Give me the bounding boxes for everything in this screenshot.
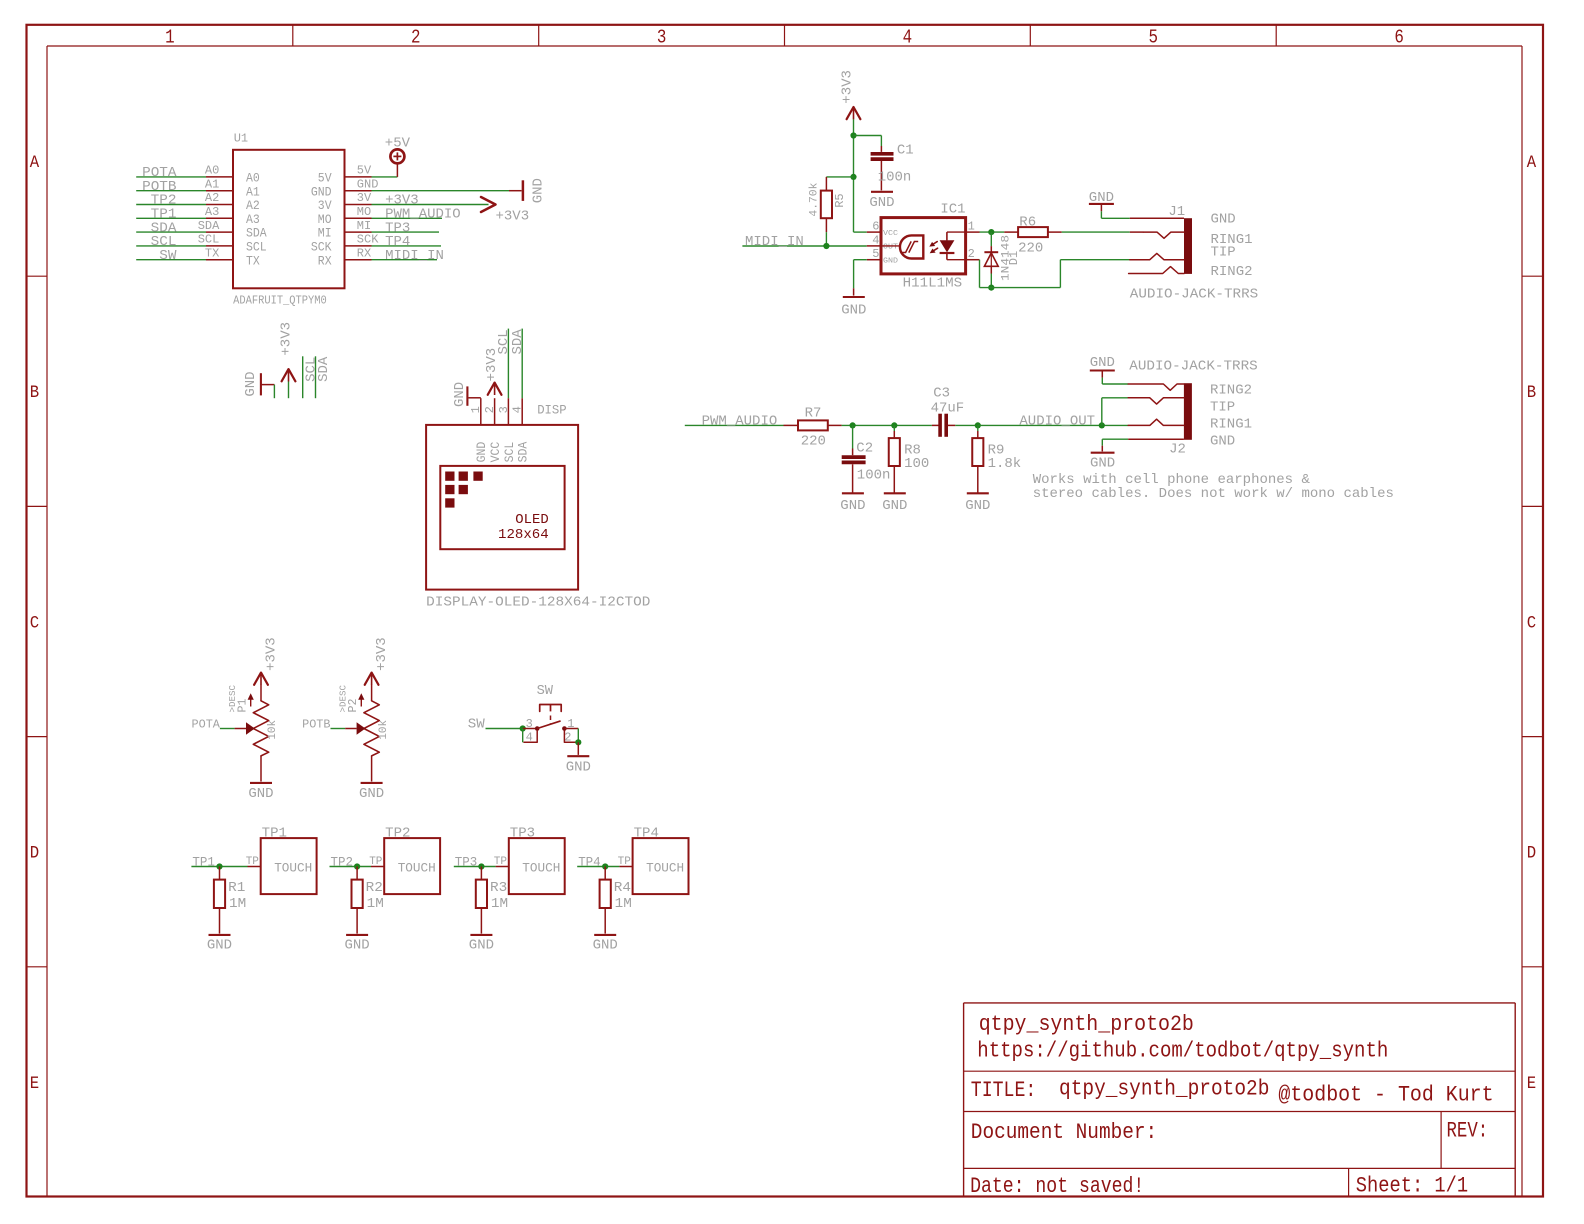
svg-text:RING2: RING2	[1210, 382, 1252, 398]
DISP pin 2 VCC	[494, 398, 496, 425]
wire J2 GND to ground	[1101, 439, 1103, 446]
svg-text:1: 1	[469, 406, 483, 413]
svg-text:GND: GND	[357, 177, 379, 191]
svg-text:GND: GND	[248, 786, 273, 802]
svg-text:5: 5	[872, 247, 879, 261]
svg-text:qtpy_synth_proto2b: qtpy_synth_proto2b	[979, 1012, 1194, 1037]
U1 pin A0	[206, 176, 233, 178]
svg-text:5: 5	[1149, 27, 1159, 49]
ground GND below R8	[884, 492, 906, 494]
svg-text:GND: GND	[311, 185, 332, 199]
resistor R8	[893, 425, 895, 431]
TP4 pin TP	[619, 866, 632, 868]
junction	[575, 739, 581, 745]
svg-text:TIP: TIP	[1210, 400, 1235, 416]
svg-text:3: 3	[657, 27, 667, 49]
svg-text:SCL: SCL	[198, 233, 220, 247]
svg-text:R3: R3	[490, 880, 507, 896]
U1 pin RX	[345, 259, 372, 261]
svg-text:MO: MO	[357, 205, 371, 219]
svg-text:TX: TX	[246, 254, 260, 268]
svg-text:1M: 1M	[229, 896, 246, 912]
DISP pin 3 SCL	[507, 398, 509, 425]
svg-text:B: B	[1527, 383, 1536, 403]
junction	[216, 863, 222, 869]
svg-text:E: E	[1527, 1074, 1536, 1094]
svg-text:2: 2	[968, 247, 975, 261]
wire net POTA	[136, 176, 206, 178]
IC1 schmitt trigger shape	[900, 235, 923, 258]
wire R6 to J1 RING1	[1062, 231, 1130, 233]
supply +3V3 arrow	[481, 197, 496, 212]
wire GND to J2 RING2	[1101, 378, 1103, 384]
svg-text:SW: SW	[159, 248, 177, 264]
wire net TP4	[577, 866, 619, 868]
SW lever	[537, 721, 560, 729]
svg-text:TP1: TP1	[262, 825, 287, 841]
resistor R7	[784, 424, 799, 426]
svg-text:RX: RX	[318, 254, 332, 268]
svg-text:3: 3	[497, 406, 511, 413]
svg-text:3V: 3V	[318, 199, 332, 213]
svg-text:GND: GND	[566, 759, 591, 775]
svg-text:D1: D1	[1007, 251, 1021, 265]
wire net TP3	[372, 231, 440, 233]
svg-text:P2: P2	[346, 699, 360, 713]
wire +3V3 rail	[853, 119, 855, 232]
svg-text:REV:: REV:	[1447, 1119, 1489, 1144]
potentiometer P2 10k	[371, 685, 373, 701]
ground GND below P1	[250, 782, 272, 784]
IC1 pin 5 GND	[867, 259, 881, 261]
wire net POTA	[220, 728, 235, 730]
TP3 pin TP	[496, 866, 509, 868]
svg-text:H11L1MS: H11L1MS	[903, 276, 963, 292]
supply +3V3 at P1	[254, 673, 268, 685]
touchpad TP3 TOUCH	[509, 838, 565, 894]
junction	[850, 174, 856, 180]
svg-text:GND: GND	[475, 442, 489, 463]
svg-text:+3V3: +3V3	[278, 322, 294, 356]
svg-text:A: A	[1527, 153, 1537, 173]
U1 pin SDA	[206, 231, 233, 233]
wire net TP2	[330, 866, 372, 868]
IC1 pin 6 VCC	[867, 231, 881, 233]
wire +3V3 stub	[288, 382, 290, 399]
svg-text:IC1: IC1	[940, 201, 965, 217]
supply +3V3 at DISP pin2	[488, 383, 502, 395]
title block	[964, 1002, 1516, 1004]
svg-text:TOUCH: TOUCH	[274, 861, 312, 876]
svg-text:+3V3: +3V3	[839, 70, 855, 104]
resistor R4 1M	[604, 867, 606, 880]
svg-text:A2: A2	[205, 191, 219, 205]
svg-text:1: 1	[968, 220, 975, 234]
capacitor C1	[880, 146, 882, 152]
svg-text:GND: GND	[882, 498, 907, 514]
svg-text:U1: U1	[234, 132, 248, 146]
J2 pin TIP	[1128, 398, 1184, 404]
svg-text:TIP: TIP	[1211, 245, 1236, 261]
wire net TP2	[136, 204, 206, 206]
U1 pin MI	[345, 231, 372, 233]
svg-text:+3V3: +3V3	[263, 637, 279, 671]
wire C3 to R9	[955, 424, 978, 426]
svg-text:+5V: +5V	[385, 136, 411, 152]
U1 pin GND	[345, 190, 372, 192]
svg-text:SDA: SDA	[517, 441, 531, 462]
wire to C1	[854, 135, 882, 137]
svg-text:TP2: TP2	[385, 825, 410, 841]
svg-text:A3: A3	[205, 205, 219, 219]
svg-text:R5: R5	[833, 193, 847, 207]
svg-text:GND: GND	[1211, 212, 1236, 228]
svg-text:MO: MO	[318, 213, 332, 227]
svg-text:4: 4	[511, 406, 525, 413]
svg-text:ADAFRUIT_QTPYM0: ADAFRUIT_QTPYM0	[233, 294, 327, 308]
connector J1 AUDIO-JACK-TRRS	[1184, 218, 1192, 274]
wire net TP1	[136, 217, 206, 219]
wire net SDA	[136, 231, 206, 233]
svg-text:TP4: TP4	[578, 856, 601, 870]
svg-text:A1: A1	[246, 185, 260, 199]
svg-text:100n: 100n	[878, 170, 912, 186]
svg-text:GND: GND	[1090, 455, 1115, 471]
svg-text:TP4: TP4	[634, 825, 659, 841]
wire net GND	[372, 190, 510, 192]
svg-text:2: 2	[483, 406, 497, 413]
resistor R3 1M	[480, 867, 482, 880]
svg-text:GND: GND	[869, 195, 894, 211]
svg-text:A0: A0	[205, 164, 219, 178]
ground GND below IC1	[843, 296, 865, 298]
svg-text:SDA: SDA	[246, 227, 267, 241]
svg-text:10k: 10k	[267, 720, 279, 740]
ground GND below C2	[842, 492, 864, 494]
svg-text:A2: A2	[246, 199, 260, 213]
svg-text:4.70k: 4.70k	[809, 182, 821, 216]
ground GND below R2	[346, 934, 368, 936]
potentiometer P1 10k	[260, 685, 262, 701]
wire +3V3 to R5	[826, 176, 853, 178]
touchpad TP4 TOUCH	[633, 838, 689, 894]
wire IC1 pin2 to J1 TIP	[979, 260, 981, 288]
OLED screen box	[440, 466, 564, 549]
capacitor C3	[932, 424, 939, 426]
SW actuator bracket	[540, 705, 562, 712]
wire IC1 pin5 to ground	[854, 259, 867, 261]
svg-text:AUDIO-JACK-TRRS: AUDIO-JACK-TRRS	[1130, 287, 1258, 303]
svg-text:TP2: TP2	[331, 856, 354, 870]
ground GND above J2	[1090, 369, 1115, 371]
svg-text:TX: TX	[205, 246, 219, 260]
junction	[1099, 422, 1105, 428]
wire P2 to ground	[371, 756, 373, 782]
wire rail to IC1 pin6	[854, 231, 867, 233]
svg-text:GND: GND	[359, 786, 384, 802]
IC1 pin4 inner lead	[881, 245, 900, 247]
DISP pin 4 SDA	[521, 398, 523, 425]
svg-text:SDA: SDA	[510, 329, 526, 355]
svg-text:TP3: TP3	[455, 856, 478, 870]
junction	[891, 422, 897, 428]
wire net SDA to DISP	[521, 329, 523, 399]
svg-text:@todbot - Tod Kurt: @todbot - Tod Kurt	[1278, 1083, 1493, 1108]
svg-text:C1: C1	[897, 142, 914, 158]
resistor R5	[825, 177, 827, 191]
wire net AUDIO_OUT	[978, 424, 1128, 426]
wire AUDIO_OUT to J2 TIP	[1101, 398, 1103, 426]
J2 pin RING2	[1128, 384, 1184, 390]
junction	[988, 285, 994, 291]
wire net TP3	[454, 866, 496, 868]
svg-text:R6: R6	[1019, 214, 1036, 230]
svg-text:MIDI_IN: MIDI_IN	[745, 234, 804, 250]
wire net SCL	[302, 356, 304, 398]
ground GND below C1	[871, 191, 893, 193]
svg-text:VCC: VCC	[489, 442, 503, 463]
svg-text:128x64: 128x64	[498, 527, 549, 543]
svg-text:GND: GND	[883, 258, 899, 266]
svg-text:AUDIO_OUT: AUDIO_OUT	[1019, 414, 1095, 430]
svg-text:TP: TP	[618, 856, 632, 868]
wire net SW	[136, 259, 206, 261]
svg-text:GND: GND	[965, 498, 990, 514]
svg-text:stereo cables. Does not work w: stereo cables. Does not work w/ mono cab…	[1033, 486, 1394, 502]
junction	[478, 863, 484, 869]
ground GND below R1	[209, 934, 231, 936]
svg-text:SCK: SCK	[311, 241, 332, 255]
svg-text:1.8k: 1.8k	[988, 456, 1022, 472]
SW pin3-4 link	[524, 731, 537, 742]
resistor R2 1M	[356, 867, 358, 880]
wire net MIDI_IN	[372, 259, 438, 261]
junction	[823, 243, 829, 249]
svg-text:SW: SW	[468, 717, 486, 733]
U1 pin 5V	[345, 176, 372, 178]
svg-text:A1: A1	[205, 177, 219, 191]
svg-text:R4: R4	[614, 880, 631, 896]
resistor R1 1M	[219, 867, 221, 880]
optocoupler IC1 H11L1MS	[881, 218, 966, 274]
U1 pin SCK	[345, 245, 372, 247]
svg-text:4: 4	[903, 27, 913, 49]
svg-text:C3: C3	[933, 386, 950, 402]
svg-text:MIDI_IN: MIDI_IN	[385, 248, 444, 264]
svg-text:4: 4	[872, 233, 879, 247]
svg-text:Date: not saved!: Date: not saved!	[970, 1174, 1144, 1199]
svg-text:47uF: 47uF	[931, 400, 965, 416]
wire net SW	[486, 728, 523, 730]
supply +3V3 at P2	[365, 673, 379, 685]
svg-text:POTA: POTA	[192, 718, 221, 732]
svg-text:+3V3: +3V3	[374, 637, 390, 671]
svg-text:https://github.com/todbot/qtpy: https://github.com/todbot/qtpy_synth	[977, 1038, 1388, 1063]
J2 pin RING1	[1128, 419, 1184, 425]
svg-text:2: 2	[411, 27, 421, 49]
wire net TP4	[372, 245, 442, 247]
U1 pin MO	[345, 217, 372, 219]
IC1 LED	[947, 231, 966, 233]
svg-text:GND: GND	[207, 938, 232, 954]
ground GND below R9	[967, 492, 989, 494]
J1 pin RING2	[1129, 267, 1184, 274]
svg-text:R1: R1	[228, 880, 245, 896]
TP2 pin TP	[371, 866, 384, 868]
svg-text:TP1: TP1	[192, 856, 215, 870]
svg-text:100: 100	[904, 456, 929, 472]
svg-text:RX: RX	[357, 246, 371, 260]
ground GND below SW	[567, 755, 589, 757]
svg-text:VCC: VCC	[883, 230, 899, 238]
J2 pin GND	[1102, 438, 1128, 440]
svg-text:PWM_AUDIO: PWM_AUDIO	[702, 414, 778, 430]
svg-text:Document Number:: Document Number:	[971, 1120, 1157, 1145]
svg-text:TOUCH: TOUCH	[646, 861, 684, 876]
IC1 pin 2	[966, 259, 980, 261]
svg-text:TP: TP	[494, 856, 508, 868]
ground GND below J2	[1091, 452, 1115, 454]
svg-text:Sheet: 1/1: Sheet: 1/1	[1356, 1173, 1468, 1198]
svg-text:A3: A3	[246, 213, 260, 227]
svg-text:GND: GND	[593, 938, 618, 954]
U1 pin 3V	[345, 204, 372, 206]
svg-text:D: D	[1527, 844, 1536, 864]
J1 pin RING1	[1143, 232, 1184, 238]
svg-text:E: E	[30, 1074, 39, 1094]
junction	[602, 863, 608, 869]
svg-text:1M: 1M	[367, 896, 384, 912]
svg-text:GND: GND	[1210, 434, 1235, 450]
ground GND stub group	[260, 373, 262, 395]
svg-text:SCL: SCL	[503, 442, 517, 463]
svg-text:OUT: OUT	[883, 244, 899, 252]
svg-text:B: B	[30, 383, 39, 403]
wire GND to J1	[1100, 211, 1102, 218]
svg-text:GND: GND	[531, 178, 547, 203]
junction	[850, 132, 856, 138]
svg-text:10k: 10k	[378, 720, 390, 740]
J1 pin TIP	[1130, 253, 1184, 259]
svg-text:GND: GND	[469, 938, 494, 954]
svg-text:TP3: TP3	[510, 825, 535, 841]
svg-text:MI: MI	[318, 227, 332, 241]
svg-text:C: C	[1527, 613, 1536, 633]
wire P1 to ground	[260, 756, 262, 782]
svg-text:GND: GND	[840, 498, 865, 514]
ground GND below R3	[470, 934, 492, 936]
resistor R6	[1004, 231, 1018, 233]
svg-text:J1: J1	[1168, 204, 1185, 220]
SW pin1-2 link	[564, 728, 578, 730]
svg-text:SW: SW	[537, 683, 554, 699]
wire net POTB	[136, 190, 206, 192]
svg-text:6: 6	[872, 220, 879, 234]
svg-text:1: 1	[165, 27, 175, 49]
svg-text:C2: C2	[856, 440, 873, 456]
wire R5 to MIDI_IN	[825, 232, 827, 246]
svg-text:RING2: RING2	[1211, 264, 1253, 280]
svg-text:GND: GND	[243, 371, 259, 396]
svg-text:P1: P1	[236, 699, 250, 713]
junction	[520, 725, 526, 731]
svg-text:6: 6	[1394, 27, 1404, 49]
wire net SCL to DISP	[507, 329, 509, 399]
svg-text:SCL: SCL	[246, 241, 267, 255]
wire net SCL	[136, 245, 206, 247]
ground GND below R4	[594, 934, 616, 936]
svg-text:GND: GND	[452, 382, 468, 407]
junction	[975, 422, 981, 428]
OLED pixel squares	[445, 472, 454, 481]
ground GND below P2	[361, 782, 383, 784]
svg-text:TOUCH: TOUCH	[398, 861, 436, 876]
svg-text:A: A	[30, 153, 40, 173]
svg-text:GND: GND	[345, 938, 370, 954]
ground GND above J1	[1089, 203, 1114, 205]
svg-text:MI: MI	[357, 219, 371, 233]
svg-text:POTB: POTB	[302, 718, 330, 732]
svg-text:220: 220	[1018, 241, 1043, 257]
connector J2 AUDIO-JACK-TRRS	[1184, 383, 1192, 440]
DISP pin 1 GND	[480, 398, 482, 425]
IC1 LED light arrows	[932, 242, 937, 245]
svg-text:3: 3	[526, 717, 533, 731]
wire net SDA	[315, 356, 317, 398]
IC1 pin 4 OUT	[867, 245, 881, 247]
svg-text:TP: TP	[369, 856, 383, 868]
U1 pin A3	[206, 217, 233, 219]
wire D1 to pin2 net	[990, 274, 992, 288]
svg-text:A0: A0	[246, 172, 260, 186]
svg-text:D: D	[30, 844, 39, 864]
U1 pin SCL	[206, 245, 233, 247]
diode D1 1N4148	[990, 232, 992, 246]
svg-text:1M: 1M	[491, 896, 508, 912]
ground GND at DISP pin1	[469, 397, 481, 399]
supply +3V3 stub	[282, 369, 296, 381]
wire R7 to C3	[842, 424, 932, 426]
wire net +3V3	[372, 204, 489, 206]
svg-text:GND: GND	[841, 303, 866, 319]
supply +5V	[390, 149, 404, 163]
wire IC1 pin1 to R6	[980, 231, 1005, 233]
capacitor C2	[852, 425, 854, 448]
U1 pin TX	[206, 259, 233, 261]
ground GND	[522, 180, 525, 201]
J1 pin GND	[1130, 217, 1184, 219]
wire GND stub	[273, 385, 275, 399]
svg-text:TOUCH: TOUCH	[522, 861, 560, 876]
wire net TP1	[191, 866, 247, 868]
SW contacts	[523, 728, 535, 730]
wire net PWM_AUDIO	[685, 424, 784, 426]
svg-text:RING1: RING1	[1210, 417, 1252, 433]
touchpad TP1 TOUCH	[261, 838, 317, 894]
svg-text:220: 220	[801, 433, 826, 449]
IC1 pin 1	[966, 231, 980, 233]
svg-text:J2: J2	[1169, 441, 1186, 457]
wire net MIDI_IN	[742, 245, 866, 247]
supply +3V3 rail top	[847, 107, 861, 119]
svg-text:SCK: SCK	[357, 233, 379, 247]
junction	[354, 863, 360, 869]
U1 pin A2	[206, 204, 233, 206]
svg-text:R7: R7	[805, 406, 822, 422]
svg-text:DISPLAY-OLED-128X64-I2CTOD: DISPLAY-OLED-128X64-I2CTOD	[426, 594, 650, 610]
svg-text:C: C	[30, 613, 39, 633]
display DISP1 DISPLAY-OLED-128X64-I2CTOD	[426, 425, 578, 590]
